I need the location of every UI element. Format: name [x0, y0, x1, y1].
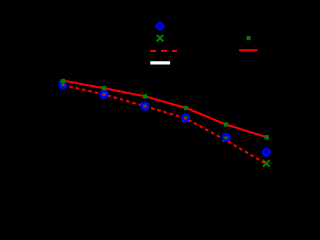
- legend 1: white solid handle: [150, 61, 170, 64]
- blue open circle P6: [263, 149, 269, 155]
- green square P6: [265, 135, 269, 139]
- blue center dot P6: [266, 151, 267, 153]
- green square P5: [224, 122, 228, 126]
- blue open circle P1: [60, 82, 66, 88]
- green x marker P3: [142, 103, 149, 110]
- blue open circle P5: [223, 134, 229, 140]
- blue center dot P2: [104, 93, 105, 95]
- dashed red fit line through green x markers: [63, 85, 266, 164]
- blue center dot P3: [144, 105, 145, 107]
- green square P4: [184, 106, 188, 110]
- green x marker P4: [183, 115, 190, 122]
- legend 2: red solid handle: [239, 49, 257, 51]
- green square P1: [61, 79, 65, 83]
- green square P2: [102, 86, 106, 90]
- blue open circle P2: [101, 91, 107, 97]
- green x marker P2: [101, 91, 108, 98]
- blue center dot P5: [225, 136, 226, 138]
- legend 2: green square handle: [247, 36, 251, 40]
- legend 1: blue center dot: [159, 25, 161, 27]
- green x marker P1: [60, 81, 67, 88]
- legend 1: red dashed handle: [150, 50, 177, 52]
- legend 1: blue open circle handle: [157, 23, 163, 29]
- blue open circle P3: [142, 103, 148, 109]
- green x marker P6: [263, 160, 270, 167]
- solid red fit line through green squares: [63, 81, 267, 138]
- blue center dot P1: [62, 84, 63, 86]
- green square P3: [143, 94, 147, 98]
- blue center dot P4: [185, 117, 186, 119]
- green x marker P5: [223, 135, 230, 142]
- blue open circle P4: [182, 115, 188, 121]
- legend 1: green x handle: [157, 35, 164, 42]
